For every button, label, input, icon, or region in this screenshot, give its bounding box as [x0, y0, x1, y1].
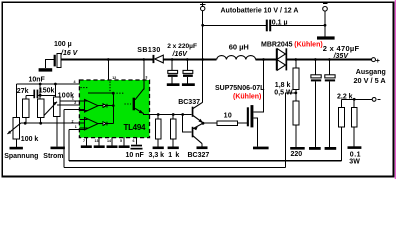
wire feedback tap — [286, 93, 296, 167]
svg-text:6: 6 — [133, 139, 135, 143]
node R18k-R220 — [294, 92, 297, 95]
svg-text:1,8 k: 1,8 k — [275, 82, 291, 89]
svg-text:100 k: 100 k — [21, 136, 39, 143]
wire W pot wiper to pin — [21, 122, 85, 124]
svg-text:/35V: /35V — [333, 53, 350, 60]
svg-text:TL494: TL494 — [124, 123, 146, 132]
diode A1 out — [103, 104, 106, 108]
capacitor C1 100u/16V — [46, 60, 55, 69]
wire 0,1u cap — [203, 24, 325, 26]
svg-text:Strom: Strom — [43, 153, 63, 160]
ground for R220 — [290, 147, 305, 150]
svg-text:5: 5 — [120, 139, 122, 143]
ground for R10 — [51, 147, 65, 150]
svg-text:1: 1 — [72, 97, 74, 101]
svg-text:2,2 k: 2,2 k — [337, 93, 353, 100]
svg-text:/16 V: /16 V — [60, 50, 79, 57]
node rail-battery — [201, 58, 204, 61]
svg-text:0.1: 0.1 — [350, 151, 361, 158]
wire vcc internal — [88, 92, 113, 94]
node rail-pin12 — [107, 58, 110, 61]
node rail-pin8 — [142, 58, 145, 61]
node rail-R18k — [294, 58, 297, 61]
node drive-3k3 — [157, 113, 160, 116]
svg-text:14: 14 — [107, 139, 111, 143]
battery plus terminal — [202, 11, 204, 60]
svg-text:BC327: BC327 — [188, 152, 210, 159]
resistor R6 3,3k — [157, 115, 159, 120]
svg-text:SUP75N06-07L: SUP75N06-07L — [215, 85, 265, 92]
ground for R6 — [153, 147, 164, 150]
ground for C6 — [325, 147, 337, 150]
diode A2 out — [103, 122, 106, 126]
svg-text:+: + — [376, 58, 380, 65]
ground for P1 — [10, 147, 23, 150]
resistor R7 1k — [172, 115, 174, 120]
op-amp A1 — [85, 100, 99, 113]
node wireA-10nF — [39, 83, 42, 86]
svg-text:(Kühlen): (Kühlen) — [233, 93, 261, 100]
ground for battery minus — [317, 36, 335, 39]
svg-text:1: 1 — [75, 125, 77, 129]
node minus-cap01 — [324, 24, 327, 27]
svg-text:MBR2045: MBR2045 — [261, 41, 293, 48]
wire 10nF node — [39, 94, 42, 97]
resistor R4 0.1 3W shunt — [353, 99, 355, 107]
node drive-base tie — [181, 113, 184, 116]
capacitor C2 220uF — [171, 60, 173, 84]
node rail-cap470b — [328, 58, 331, 61]
wire op1+ input — [60, 100, 80, 102]
wire feedback p_e — [69, 128, 84, 130]
node shunt top — [353, 98, 356, 101]
svg-text:12: 12 — [112, 76, 116, 80]
svg-text:Autobatterie 10 V / 12 A: Autobatterie 10 V / 12 A — [221, 8, 299, 15]
node rail-cap470a — [314, 58, 317, 61]
node drive-1k — [172, 113, 175, 116]
ground for C5 — [309, 147, 321, 150]
svg-text:10nF: 10nF — [29, 77, 46, 84]
capacitor C4 0,1u — [266, 20, 268, 32]
svg-text:3W: 3W — [349, 159, 360, 166]
output minus terminal — [372, 98, 376, 102]
wire output minus — [342, 98, 373, 100]
potentiometer P1 100k Spannung — [15, 84, 17, 118]
node wireA-100k — [54, 83, 57, 86]
svg-text:150k: 150k — [39, 88, 55, 95]
svg-text:10: 10 — [224, 113, 233, 120]
svg-text:1 k: 1 k — [168, 152, 180, 159]
node rail-drain — [262, 58, 265, 61]
svg-text:20 V / 5 A: 20 V / 5 A — [354, 76, 387, 85]
border frame — [2, 2, 393, 176]
svg-text:2 x 220µF: 2 x 220µF — [167, 43, 197, 50]
svg-text:13: 13 — [95, 139, 99, 143]
resistor R2 220 — [293, 101, 299, 125]
edge artifact line — [395, 0, 396, 179]
svg-text:60 µH: 60 µH — [229, 42, 249, 51]
wire opamp outputs bus — [112, 93, 114, 123]
IC bottom pins grounds — [86, 138, 124, 146]
svg-text:Spannung: Spannung — [4, 153, 38, 160]
ground for C1 — [39, 68, 53, 71]
svg-text:2 x 470µF: 2 x 470µF — [323, 44, 360, 53]
svg-text:27k: 27k — [17, 88, 29, 95]
svg-text:10 nF: 10 nF — [126, 152, 145, 159]
ground for C2 — [167, 83, 180, 86]
op-amp A2 — [85, 117, 99, 129]
internal transistor Q4 — [125, 103, 132, 105]
svg-text:3,3 k: 3,3 k — [149, 152, 165, 159]
capacitor C6 470uF — [328, 60, 330, 148]
ground for shunt — [348, 146, 362, 149]
capacitor C3 220uF — [186, 60, 188, 84]
node battery-cap01 — [201, 24, 204, 27]
wire A dead time — [16, 83, 79, 85]
wire pin12 dotted inside — [109, 82, 111, 93]
svg-text:SB130: SB130 — [137, 47, 160, 54]
svg-text:(Kühlen): (Kühlen) — [294, 41, 322, 48]
svg-text:100 µ: 100 µ — [54, 41, 72, 48]
wire main supply rail — [61, 59, 372, 61]
wire pin8/collector from rail — [143, 60, 145, 81]
wire pin12 from rail — [107, 60, 109, 81]
wire driver output node — [201, 122, 204, 125]
node rail-cap2 — [186, 58, 189, 61]
svg-text:2: 2 — [72, 119, 74, 123]
wire op1- input wiper — [57, 104, 80, 106]
capacitor C8 10nF at IC — [136, 138, 138, 145]
svg-text:4: 4 — [74, 80, 76, 84]
node rail-cap1 — [171, 58, 174, 61]
ground for MOSFET source — [253, 147, 269, 150]
wire drive from IC — [150, 114, 192, 116]
svg-text:3: 3 — [145, 76, 147, 80]
svg-text:BC337: BC337 — [178, 99, 200, 106]
battery minus terminal — [323, 7, 328, 12]
svg-text:0,1 µ: 0,1 µ — [272, 20, 288, 27]
svg-text:220: 220 — [291, 151, 303, 158]
wire outer bus — [64, 166, 286, 168]
output plus terminal — [372, 58, 376, 62]
wire feedback p_c — [64, 109, 85, 111]
ground for Q3 — [197, 146, 208, 149]
wire base tie — [183, 115, 192, 133]
IC U1 TL494 — [79, 80, 149, 138]
svg-text:/16V: /16V — [172, 51, 189, 58]
svg-text:2: 2 — [74, 101, 76, 105]
svg-text:7: 7 — [83, 139, 85, 143]
ground for R7 — [168, 147, 179, 150]
svg-text:Ausgang: Ausgang — [356, 69, 386, 76]
wire inner bus — [69, 160, 342, 162]
capacitor C5 470uF — [314, 60, 316, 148]
ground for C3 — [182, 83, 195, 86]
